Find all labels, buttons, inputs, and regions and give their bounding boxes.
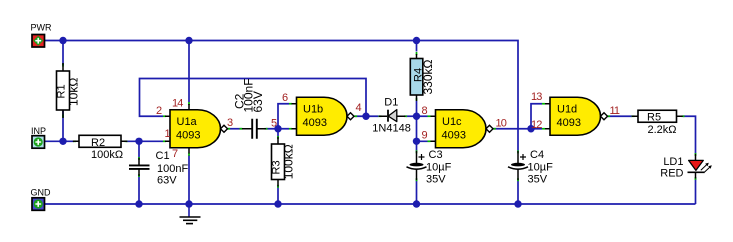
svg-text:D1: D1 <box>384 96 398 108</box>
svg-text:C4: C4 <box>530 149 544 161</box>
svg-text:U1b: U1b <box>303 104 323 116</box>
svg-text:100kΩ: 100kΩ <box>282 144 296 179</box>
svg-text:4093: 4093 <box>303 117 327 129</box>
svg-text:GND: GND <box>31 187 52 197</box>
svg-text:3: 3 <box>227 117 233 129</box>
svg-text:10kΩ: 10kΩ <box>67 78 81 106</box>
svg-text:11: 11 <box>610 105 620 117</box>
svg-text:100kΩ: 100kΩ <box>91 149 123 161</box>
svg-text:PWR: PWR <box>31 23 52 33</box>
svg-text:LD1: LD1 <box>663 156 683 168</box>
svg-text:13: 13 <box>531 91 542 103</box>
svg-text:10µF: 10µF <box>426 162 452 174</box>
svg-text:4: 4 <box>356 102 362 114</box>
svg-text:R5: R5 <box>647 111 661 123</box>
svg-text:C3: C3 <box>429 149 443 161</box>
svg-text:U1c: U1c <box>442 116 462 128</box>
svg-text:2: 2 <box>156 105 162 117</box>
svg-text:12: 12 <box>531 119 542 131</box>
svg-text:1N4148: 1N4148 <box>372 123 411 135</box>
svg-text:5: 5 <box>271 118 277 130</box>
svg-text:4093: 4093 <box>176 129 200 141</box>
svg-text:35V: 35V <box>426 174 446 186</box>
svg-text:1: 1 <box>165 128 171 140</box>
svg-text:INP: INP <box>31 126 46 136</box>
svg-text:35V: 35V <box>528 174 548 186</box>
svg-text:4093: 4093 <box>557 117 581 129</box>
svg-text:U1a: U1a <box>177 116 198 128</box>
svg-text:10: 10 <box>496 118 507 130</box>
svg-text:330kΩ: 330kΩ <box>421 59 435 94</box>
svg-text:7: 7 <box>172 148 178 160</box>
svg-text:C1: C1 <box>156 150 170 162</box>
svg-text:2.2kΩ: 2.2kΩ <box>648 124 677 136</box>
svg-text:R2: R2 <box>91 137 105 149</box>
svg-text:4093: 4093 <box>442 129 466 141</box>
svg-text:RED: RED <box>660 168 683 180</box>
svg-text:10µF: 10µF <box>528 162 554 174</box>
svg-text:U1d: U1d <box>557 104 577 116</box>
svg-text:8: 8 <box>422 105 428 117</box>
svg-text:63V: 63V <box>157 175 177 187</box>
svg-text:6: 6 <box>282 92 288 104</box>
svg-text:63V: 63V <box>251 91 265 112</box>
svg-text:14: 14 <box>172 98 183 110</box>
svg-text:9: 9 <box>422 130 428 142</box>
svg-text:100nF: 100nF <box>157 163 188 175</box>
